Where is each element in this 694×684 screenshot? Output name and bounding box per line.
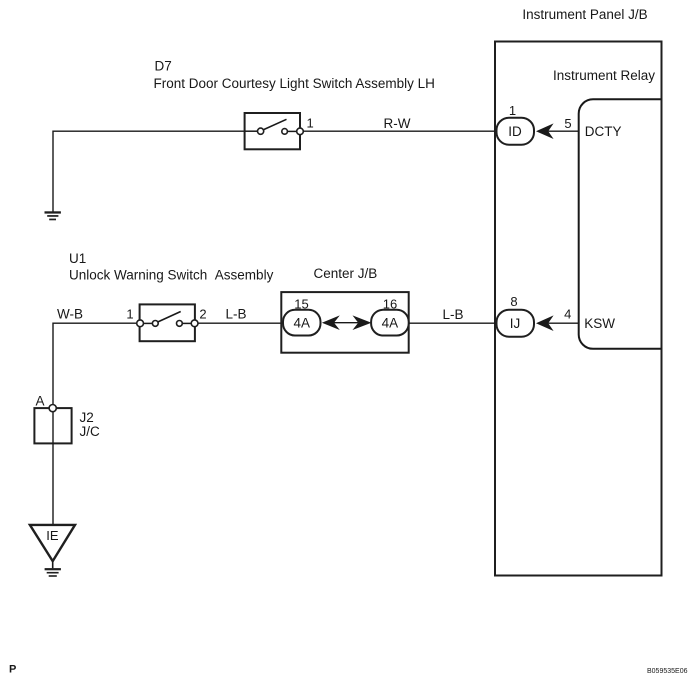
harness arrow into IJ (536, 315, 554, 331)
svg-text:4A: 4A (382, 316, 399, 331)
svg-text:Center J/B: Center J/B (314, 266, 378, 281)
harness arrow into ID (536, 123, 554, 139)
svg-text:IE: IE (46, 528, 59, 543)
svg-text:1: 1 (307, 115, 314, 130)
switch D7 contact circles (258, 128, 304, 135)
relay block: Instrument Relay outline (579, 99, 662, 348)
svg-text:1: 1 (509, 103, 516, 118)
svg-text:IJ: IJ (510, 316, 521, 331)
svg-text:2: 2 (199, 307, 206, 322)
junction block: Instrument Panel J/B outline (495, 42, 662, 576)
svg-text:L-B: L-B (225, 307, 246, 322)
svg-text:4: 4 (564, 307, 571, 322)
svg-text:J/C: J/C (80, 424, 101, 439)
terminal 4A (pin 16) (371, 310, 409, 336)
svg-text:B059535E06: B059535E06 (647, 668, 688, 675)
ground G1 (body ground) (45, 211, 61, 220)
svg-text:J2: J2 (80, 410, 94, 425)
switch U1 internal wire stubs (144, 322, 192, 324)
svg-text:D7: D7 (155, 59, 172, 74)
wire: DCTY pin 5 to arrow (548, 130, 579, 132)
harness arrows between 4A terminals (322, 315, 372, 330)
wire: through J2 down to ground point IE (52, 408, 54, 525)
ground G2 (earth) (45, 568, 61, 577)
switch U1 contact circles (137, 320, 198, 327)
svg-text:Instrument Relay: Instrument Relay (553, 68, 655, 83)
switch U1 lever (158, 312, 181, 323)
svg-text:U1: U1 (69, 251, 86, 266)
svg-text:16: 16 (383, 297, 397, 312)
switch D7 box (245, 113, 300, 149)
svg-text:DCTY: DCTY (585, 124, 622, 139)
ground point IE triangle (30, 525, 75, 561)
svg-text:Unlock Warning Switch Assembl: Unlock Warning Switch Assembly (69, 267, 274, 282)
svg-text:Front Door Courtesy Light Swit: Front Door Courtesy Light Switch Assembl… (154, 76, 435, 91)
svg-text:P: P (9, 664, 16, 676)
svg-text:8: 8 (510, 294, 517, 309)
svg-text:A: A (36, 394, 45, 409)
svg-text:1: 1 (126, 307, 133, 322)
svg-text:Instrument Panel J/B: Instrument Panel J/B (522, 7, 647, 22)
ground G2 stem (52, 561, 54, 568)
switch D7 lever (263, 119, 287, 130)
switch U1 box (140, 304, 195, 341)
node A circle (49, 405, 56, 412)
svg-text:KSW: KSW (584, 316, 615, 331)
svg-text:15: 15 (294, 297, 308, 312)
wire: body ground up to D7 switch (53, 131, 245, 211)
wire: KSW pin 4 to arrow (548, 322, 579, 324)
wire: D7 pin 1 to terminal ID (R-W) (303, 130, 497, 132)
svg-text:R-W: R-W (384, 116, 411, 131)
svg-text:L-B: L-B (442, 307, 463, 322)
svg-text:4A: 4A (293, 316, 310, 331)
terminal IJ (pin 8 of J/B) (497, 310, 535, 337)
terminal ID (pin 1 of J/B) (497, 118, 535, 145)
wire: Center J/B pin 16 to terminal IJ (L-B) (409, 322, 497, 324)
wire: node A up and right to U1 pin 1 (W-B) (53, 323, 140, 408)
svg-text:5: 5 (564, 116, 571, 131)
svg-text:ID: ID (508, 124, 522, 139)
wire: U1 pin 2 to Center J/B pin 15 (L-B) (198, 322, 283, 324)
junction connector J2 box (34, 408, 71, 443)
terminal 4A (pin 15) (283, 310, 321, 336)
svg-text:W-B: W-B (57, 307, 83, 322)
switch D7 internal wire stubs (245, 130, 297, 132)
junction block: Center J/B outline (281, 292, 408, 353)
